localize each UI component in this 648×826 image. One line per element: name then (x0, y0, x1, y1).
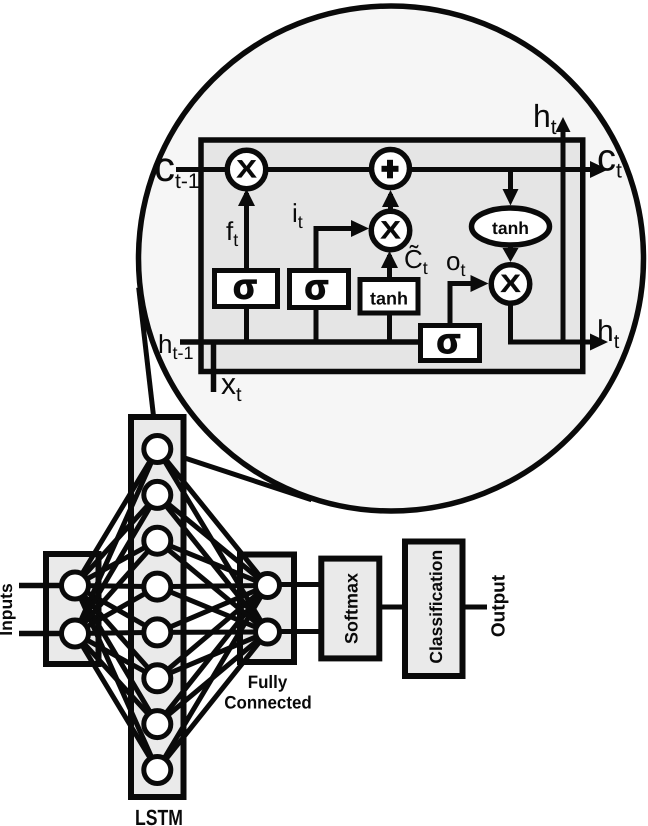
op tanh ellipse (472, 208, 550, 245)
LSTM layer box (131, 417, 184, 797)
classification box (405, 542, 463, 677)
wire input stub 1 (19, 583, 62, 589)
node fc 2 (256, 620, 280, 644)
wire forget gate up arrow (244, 193, 249, 268)
svg-text:Connected: Connected (224, 693, 311, 713)
arrowhead h_t riser top (556, 117, 571, 132)
wire forget gate down stub (244, 309, 249, 342)
node fc 1 (256, 574, 280, 598)
inputs layer box (46, 554, 99, 664)
wire softmax to classification (378, 605, 405, 610)
svg-text:X: X (380, 217, 401, 245)
svg-text:Output: Output (489, 574, 510, 637)
edges LSTM nodes to fc node 2 (157, 449, 267, 770)
wire output gate elbow o_t (450, 284, 479, 324)
svg-text:Classification: Classification (426, 550, 446, 664)
gate tanh (candidate) box (360, 280, 418, 314)
wire h_t riser (561, 128, 566, 342)
wire fc to softmax 2 (280, 629, 322, 634)
svg-text:Inputs: Inputs (0, 583, 16, 636)
svg-text:LSTM: LSTM (135, 805, 183, 826)
fully connected layer box (240, 555, 294, 663)
op add circle (372, 150, 410, 188)
wire candidate tanh up arrow (387, 255, 392, 277)
wire x_t input (211, 342, 217, 392)
wire input stub 2 (19, 631, 62, 637)
wire c to tanh ellipse arrow (508, 172, 513, 199)
arrowhead h-out right (590, 334, 608, 351)
svg-text:tanh: tanh (370, 289, 408, 309)
wire classification to output (461, 605, 487, 610)
arrowhead c-line right (590, 161, 608, 178)
callout line left (node to circle tangent) (139, 288, 158, 449)
op multiply candidate circle (371, 211, 410, 250)
node input 1 (62, 572, 89, 599)
gate sigma3 (output) box (421, 326, 480, 361)
svg-text:tanh: tanh (492, 218, 529, 238)
wire tanh ellipse to output multiply arrow (508, 247, 513, 256)
svg-text:σ: σ (437, 322, 461, 361)
nodes LSTM (144, 436, 171, 784)
op multiply forget circle (227, 150, 266, 189)
svg-text:Softmax: Softmax (342, 573, 362, 644)
svg-text:X: X (236, 156, 257, 184)
edges input node 2 to LSTM nodes (75, 449, 157, 770)
wire multiply to add arrow (388, 194, 393, 210)
gate sigma2 (input) box (290, 271, 349, 308)
wire c-line (cell state) (176, 167, 599, 172)
softmax box (321, 559, 379, 659)
gate sigma1 (forget) box (215, 271, 278, 307)
svg-text:σ: σ (305, 268, 329, 307)
op multiply output circle (491, 265, 530, 304)
edges input node 1 to LSTM nodes (75, 449, 157, 770)
wire fc to softmax 1 (280, 582, 322, 587)
svg-text:Fully: Fully (248, 672, 287, 692)
wire candidate down stub (387, 315, 392, 342)
wire input gate down stub (314, 310, 319, 342)
magnifier circle (139, 6, 644, 511)
edges LSTM nodes to fc node 1 (157, 449, 267, 770)
LSTM cell box (201, 140, 583, 372)
wire output multiply down to h-out (511, 303, 600, 342)
node input 2 (62, 620, 89, 647)
svg-text:σ: σ (233, 268, 257, 307)
svg-text:X: X (500, 270, 521, 298)
wire input gate elbow i_t (316, 229, 361, 269)
callout line right (node to circle tangent) (157, 449, 311, 500)
wire h-prev line (180, 339, 460, 345)
